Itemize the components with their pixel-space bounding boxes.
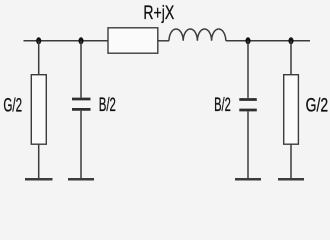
wire: top-right bus segment [226,40,310,42]
ground bar (right G/2 terminal) [278,178,304,181]
wire: right G/2 bottom lead [290,144,292,179]
wire: left B/2 top lead [80,41,82,98]
node A (left input junction) [36,37,41,44]
wire: left G/2 bottom lead [38,144,40,179]
ground bar (left B/2 terminal) [68,178,94,181]
wire: right G/2 top lead [290,41,292,75]
wire: right B/2 bottom lead [247,111,249,179]
node C (right shunt junction) [245,37,250,44]
node B (left shunt junction) [78,37,83,44]
wire: box to coil segment [158,40,169,42]
svg-text:G/2: G/2 [3,95,22,116]
svg-text:R+jX: R+jX [143,3,174,24]
svg-text:B/2: B/2 [99,95,116,116]
wire: left B/2 bottom lead [80,111,82,179]
svg-text:B/2: B/2 [214,95,231,116]
wire: top-left bus segment [24,40,109,42]
svg-text:G/2: G/2 [306,96,329,117]
wire: right B/2 top lead [247,41,249,98]
capacitor B/2 (right shunt susceptance) [239,100,256,111]
resistor R+jX series impedance box [108,28,158,53]
capacitor B/2 (left shunt susceptance) [72,99,91,109]
inductor L1 (series reactance coil) [169,29,226,41]
resistor G/2 (left shunt conductance) [31,75,46,145]
node D (right output junction) [288,37,293,44]
ground bar (right B/2 terminal) [235,178,261,181]
resistor G/2 (right shunt conductance) [284,75,299,145]
wire: left G/2 top lead [38,41,40,75]
ground bar (left G/2 terminal) [25,178,53,181]
